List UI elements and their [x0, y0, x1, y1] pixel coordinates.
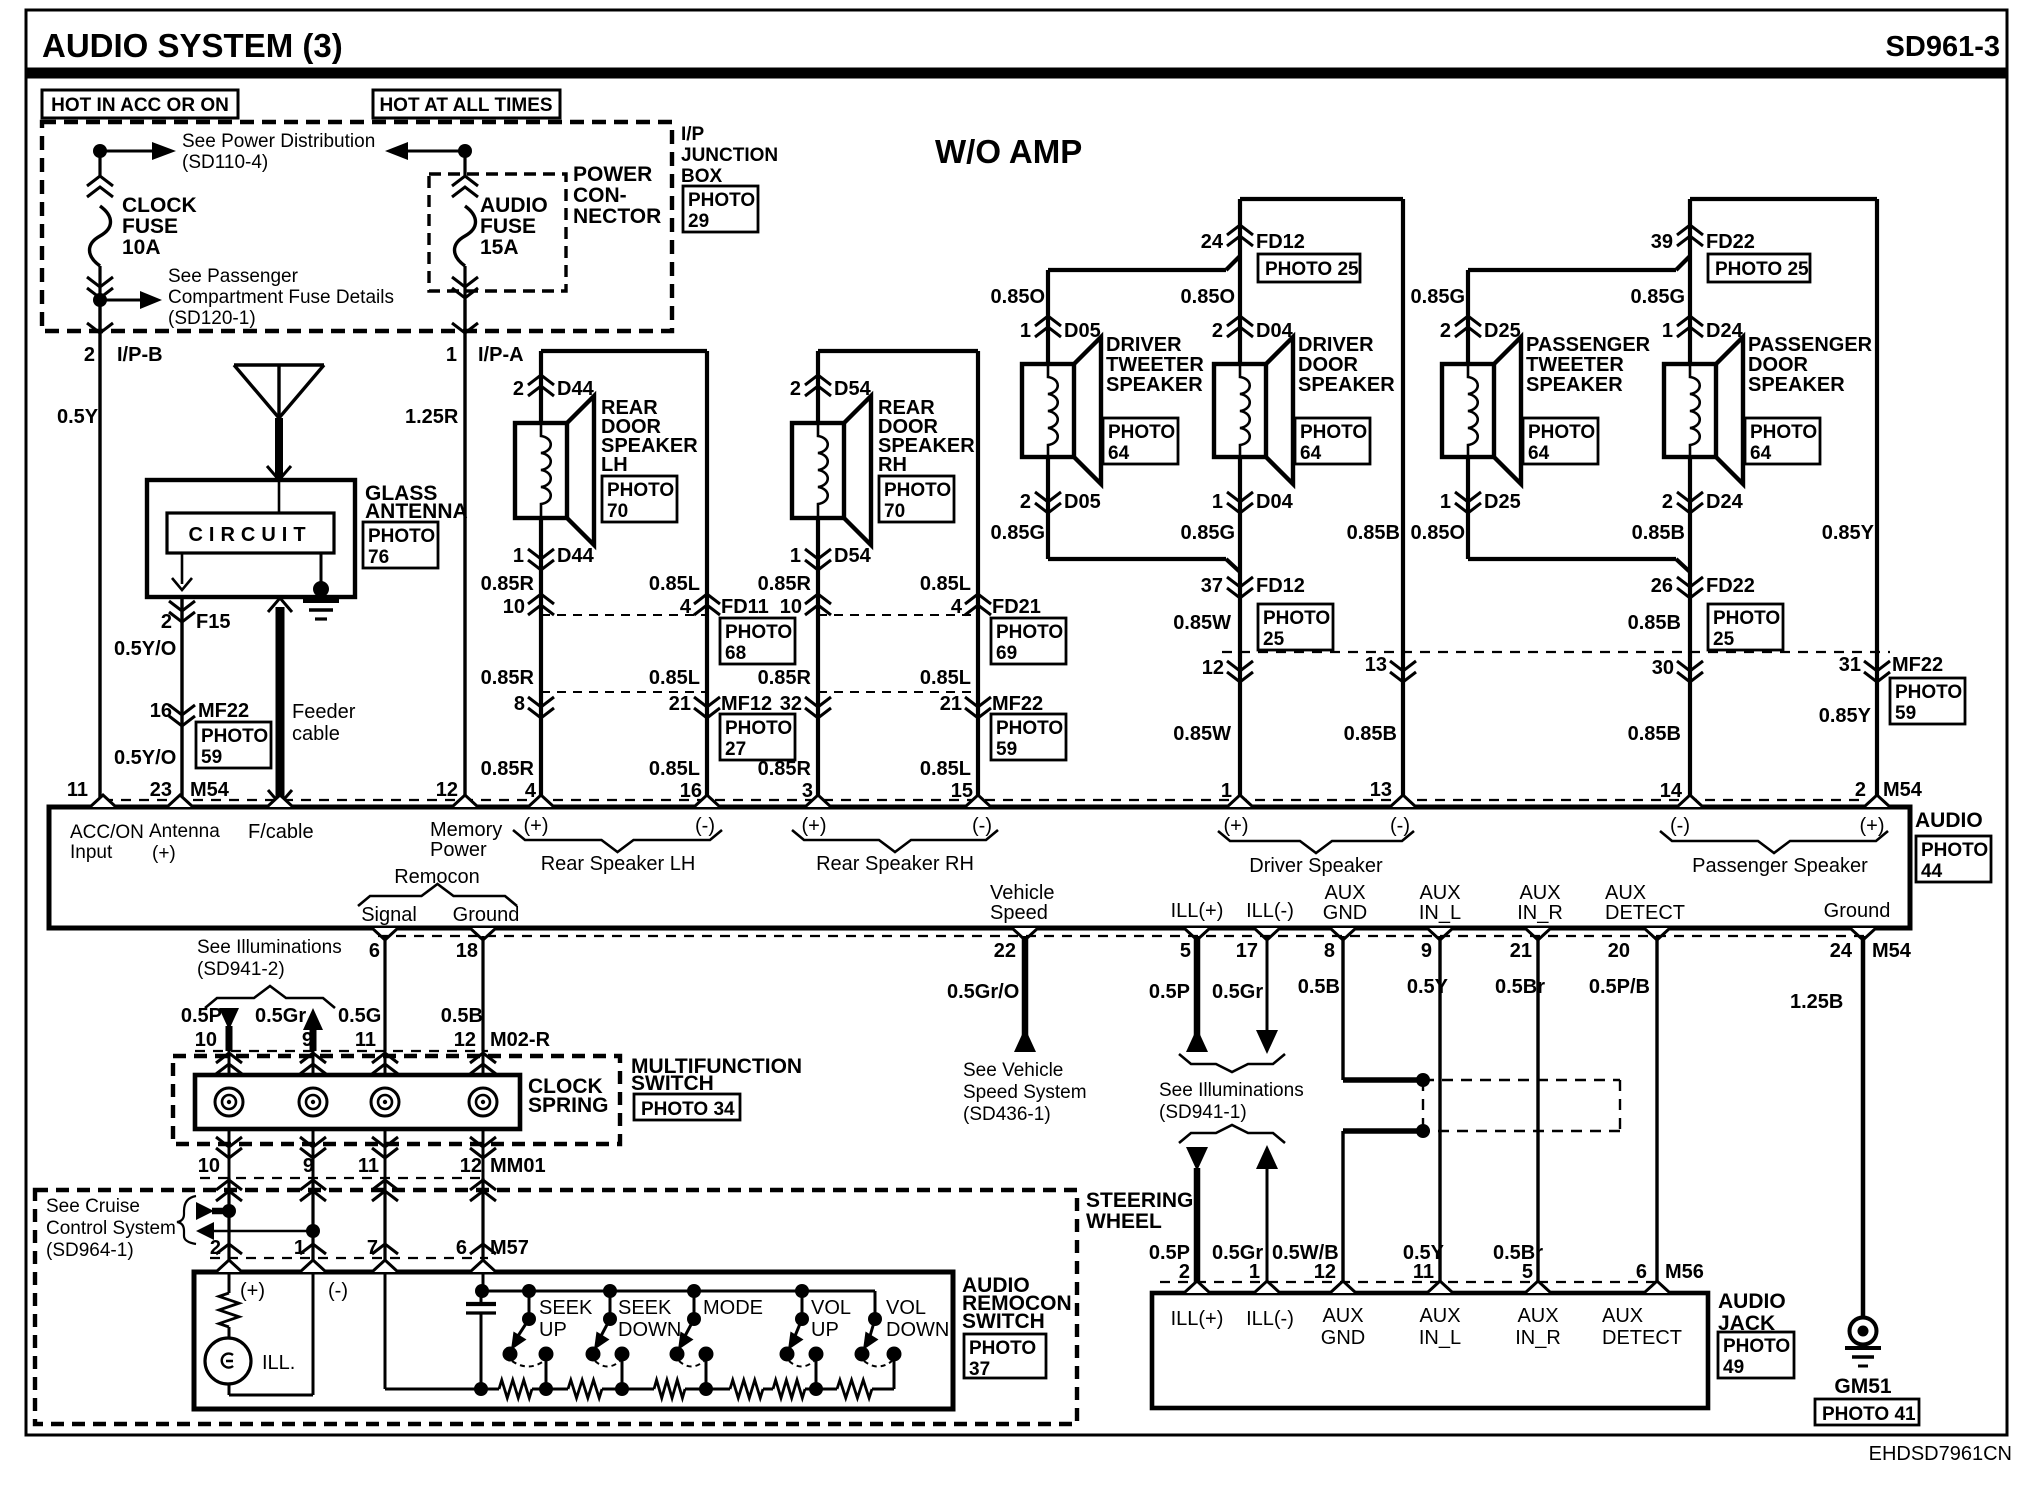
- svg-text:1: 1: [790, 545, 801, 567]
- see illuminations SD941-1 reference: [1179, 1054, 1285, 1072]
- svg-text:TWEETER: TWEETER: [1106, 354, 1204, 376]
- wire I/P-B 0.5Y: [98, 300, 101, 807]
- svg-text:MODE: MODE: [703, 1297, 763, 1319]
- switch VOL UP: [795, 1284, 809, 1298]
- connector D24 top: [1677, 316, 1703, 337]
- svg-text:DOOR: DOOR: [1298, 354, 1359, 376]
- svg-text:PHOTO: PHOTO: [1108, 422, 1175, 443]
- svg-text:PHOTO 25: PHOTO 25: [1265, 259, 1359, 280]
- svg-text:PHOTO: PHOTO: [1921, 840, 1988, 861]
- svg-text:10A: 10A: [122, 236, 161, 259]
- svg-text:(SD941-2): (SD941-2): [197, 959, 285, 980]
- fuse AUDIO FUSE 15A: [463, 151, 466, 178]
- svg-text:JUNCTION: JUNCTION: [681, 145, 778, 166]
- wire AUX GND 0.5B with shield taps: [1341, 936, 1344, 1080]
- svg-text:PASSENGER: PASSENGER: [1748, 334, 1873, 356]
- svg-text:(SD436-1): (SD436-1): [963, 1104, 1051, 1125]
- svg-text:70: 70: [607, 501, 628, 522]
- svg-text:32: 32: [780, 693, 802, 715]
- svg-text:0.85R: 0.85R: [758, 758, 812, 780]
- connector D25 top: [1455, 316, 1481, 337]
- svg-text:(-): (-): [972, 815, 992, 837]
- wire loop FD12 top: [1240, 197, 1403, 201]
- svg-text:D44: D44: [557, 378, 595, 400]
- svg-text:0.85G: 0.85G: [1631, 286, 1685, 308]
- svg-text:(SD120-1): (SD120-1): [168, 308, 256, 329]
- svg-text:See Illuminations: See Illuminations: [197, 937, 342, 958]
- connector D44 pin 1 (bottom): [528, 549, 554, 570]
- svg-text:0.85L: 0.85L: [920, 667, 971, 689]
- svg-text:5: 5: [1180, 940, 1191, 962]
- svg-text:3: 3: [802, 780, 813, 802]
- svg-text:2: 2: [1179, 1261, 1190, 1283]
- speaker DRIVER tweeter: [1022, 364, 1074, 457]
- connector FD12 top: [1227, 225, 1253, 246]
- svg-text:0.85R: 0.85R: [481, 758, 535, 780]
- svg-text:2: 2: [513, 378, 524, 400]
- svg-text:STEERING: STEERING: [1086, 1189, 1193, 1212]
- svg-text:SWITCH: SWITCH: [962, 1310, 1045, 1333]
- svg-text:See Vehicle: See Vehicle: [963, 1060, 1063, 1081]
- connector D04 top: [1227, 316, 1253, 337]
- svg-text:M54: M54: [190, 779, 230, 801]
- svg-text:IN_R: IN_R: [1515, 1327, 1561, 1349]
- connector D24 bottom: [1677, 492, 1703, 513]
- svg-text:2: 2: [1020, 491, 1031, 513]
- wire AUX IN_L 0.5Y: [1438, 936, 1441, 1293]
- svg-text:16: 16: [680, 780, 702, 802]
- svg-text:W/O AMP: W/O AMP: [935, 133, 1082, 170]
- switch SEEK UP: [522, 1284, 536, 1298]
- glass antenna box with CIRCUIT: [147, 480, 355, 597]
- svg-text:Compartment Fuse Details: Compartment Fuse Details: [168, 287, 394, 308]
- svg-text:GM51: GM51: [1834, 1375, 1892, 1398]
- svg-text:(-): (-): [1390, 815, 1410, 837]
- svg-text:D25: D25: [1484, 320, 1521, 342]
- svg-text:(SD964-1): (SD964-1): [46, 1240, 134, 1261]
- svg-text:0.85R: 0.85R: [481, 573, 535, 595]
- connector MF22: [818, 691, 978, 693]
- switch MODE: [687, 1284, 701, 1298]
- svg-text:I/P-B: I/P-B: [117, 344, 163, 366]
- svg-text:0.5Y/O: 0.5Y/O: [114, 638, 176, 660]
- svg-text:MF12: MF12: [721, 693, 772, 715]
- svg-text:FD11: FD11: [721, 596, 769, 618]
- connector M54 row chevron 31: [1864, 661, 1890, 682]
- svg-text:D24: D24: [1706, 491, 1744, 513]
- svg-text:12: 12: [460, 1155, 482, 1177]
- clock spring coils: [228, 1051, 231, 1075]
- svg-text:PHOTO: PHOTO: [1528, 422, 1595, 443]
- svg-text:2: 2: [210, 1237, 221, 1259]
- svg-text:SWITCH: SWITCH: [631, 1072, 714, 1095]
- svg-text:Antenna: Antenna: [149, 821, 220, 842]
- svg-text:AUDIO: AUDIO: [1915, 809, 1983, 832]
- svg-text:8: 8: [1324, 940, 1335, 962]
- svg-text:PHOTO 34: PHOTO 34: [641, 1099, 735, 1120]
- svg-text:TWEETER: TWEETER: [1526, 354, 1624, 376]
- svg-text:(-): (-): [695, 815, 715, 837]
- svg-text:9: 9: [1421, 940, 1432, 962]
- svg-text:FD21: FD21: [992, 596, 1041, 618]
- svg-text:Memory: Memory: [430, 819, 502, 841]
- svg-text:ILL.: ILL.: [262, 1352, 295, 1374]
- svg-text:NECTOR: NECTOR: [573, 205, 661, 228]
- svg-text:39: 39: [1651, 231, 1673, 253]
- svg-text:69: 69: [996, 643, 1017, 664]
- wire loop FD22 top: [1690, 197, 1877, 201]
- svg-text:1: 1: [446, 344, 457, 366]
- svg-text:11: 11: [67, 779, 88, 801]
- wire F15 0.5Y/O (antenna +): [181, 553, 184, 584]
- svg-text:SPEAKER: SPEAKER: [1526, 374, 1623, 396]
- svg-text:PHOTO: PHOTO: [1750, 422, 1817, 443]
- label HOT IN ACC OR ON: [42, 90, 238, 118]
- svg-text:10: 10: [195, 1029, 217, 1051]
- svg-text:9: 9: [302, 1029, 313, 1051]
- svg-text:0.5Gr/O: 0.5Gr/O: [947, 981, 1019, 1003]
- svg-text:0.85R: 0.85R: [481, 667, 535, 689]
- svg-text:PHOTO 41: PHOTO 41: [1822, 1404, 1916, 1425]
- svg-text:ILL(-): ILL(-): [1246, 1308, 1294, 1330]
- wire pair D44 top loop: [541, 349, 707, 353]
- svg-text:0.85W: 0.85W: [1173, 723, 1231, 745]
- svg-text:9: 9: [303, 1155, 314, 1177]
- svg-text:EHDSD7961CN: EHDSD7961CN: [1869, 1443, 2012, 1465]
- svg-text:ILL(+): ILL(+): [1171, 900, 1224, 922]
- svg-text:0.5Y: 0.5Y: [57, 406, 99, 428]
- svg-text:0.85L: 0.85L: [649, 573, 700, 595]
- svg-text:1: 1: [1020, 320, 1031, 342]
- svg-text:0.85G: 0.85G: [991, 522, 1045, 544]
- svg-text:I/P: I/P: [681, 124, 705, 145]
- svg-text:CON-: CON-: [573, 184, 627, 207]
- svg-text:DETECT: DETECT: [1605, 902, 1685, 924]
- svg-text:GND: GND: [1321, 1327, 1365, 1349]
- svg-text:SD961-3: SD961-3: [1886, 31, 2000, 63]
- svg-text:13: 13: [1365, 654, 1387, 676]
- node: power distribution junction A: [93, 144, 107, 158]
- svg-text:59: 59: [996, 739, 1017, 760]
- svg-text:PHOTO: PHOTO: [1300, 422, 1367, 443]
- svg-text:CIRCUIT: CIRCUIT: [188, 524, 311, 546]
- svg-text:F15: F15: [196, 611, 230, 633]
- audio jack box: [1152, 1293, 1708, 1408]
- svg-text:30: 30: [1652, 657, 1674, 679]
- svg-text:UP: UP: [811, 1319, 839, 1341]
- connector M54 dashed line top: [103, 799, 1866, 801]
- svg-text:76: 76: [368, 547, 389, 568]
- svg-text:2: 2: [1662, 491, 1673, 513]
- wire: see power distribution link: [100, 150, 152, 153]
- shield dashed box (AUX IN): [1422, 1080, 1424, 1131]
- svg-text:PHOTO: PHOTO: [607, 480, 674, 501]
- node: passenger compartment fuse junction: [93, 293, 107, 307]
- svg-text:PHOTO: PHOTO: [996, 718, 1063, 739]
- svg-text:CLOCK: CLOCK: [122, 194, 197, 217]
- svg-text:64: 64: [1108, 443, 1130, 464]
- svg-text:See Passenger: See Passenger: [168, 266, 299, 287]
- connector D54 pin 1 (bottom): [805, 549, 831, 570]
- arrow illumination 0.5P (down): [219, 1008, 239, 1030]
- svg-text:4: 4: [680, 596, 692, 618]
- fuse CLOCK FUSE 10A: [98, 151, 101, 178]
- svg-text:1: 1: [513, 545, 524, 567]
- svg-text:D25: D25: [1484, 491, 1521, 513]
- svg-text:12: 12: [1314, 1261, 1336, 1283]
- feeder cable (bold): [268, 598, 292, 612]
- svg-text:2: 2: [161, 611, 172, 633]
- wire I/P-A 1.25R: [463, 300, 466, 807]
- svg-text:8: 8: [514, 693, 525, 715]
- svg-text:0.85G: 0.85G: [1181, 522, 1235, 544]
- wire Remocon Signal (pin 6): [383, 936, 386, 1051]
- speaker PASSENGER tweeter: [1442, 364, 1494, 457]
- ground GM51: [1850, 1318, 1877, 1345]
- capacitor: [475, 1284, 489, 1298]
- svg-text:SEEK: SEEK: [618, 1297, 672, 1319]
- svg-text:10: 10: [198, 1155, 220, 1177]
- wire M57-7 to resistor ladder: [384, 1272, 387, 1389]
- svg-text:SPEAKER: SPEAKER: [1106, 374, 1203, 396]
- svg-text:21: 21: [669, 693, 691, 715]
- connector FD22 top: [1677, 225, 1703, 246]
- power connector (dashed): [429, 174, 566, 291]
- steering wheel dashed box: [35, 1190, 1077, 1424]
- svg-text:1.25B: 1.25B: [1790, 991, 1843, 1013]
- svg-text:AUDIO: AUDIO: [1718, 1290, 1786, 1313]
- tweeter return wire to FD22 bottom: [1468, 557, 1676, 561]
- svg-text:14: 14: [1660, 780, 1683, 802]
- svg-text:POWER: POWER: [573, 163, 652, 186]
- svg-text:12: 12: [436, 779, 458, 801]
- svg-text:0.85Y: 0.85Y: [1822, 522, 1875, 544]
- svg-text:MF22: MF22: [992, 693, 1043, 715]
- switch top rail: [481, 1290, 875, 1293]
- connector D44 pin 2 (top): [528, 375, 554, 396]
- svg-text:FD22: FD22: [1706, 231, 1755, 253]
- svg-text:11: 11: [1413, 1261, 1434, 1283]
- svg-text:PHOTO: PHOTO: [1713, 608, 1780, 629]
- svg-text:13: 13: [1370, 779, 1392, 801]
- svg-text:(+): (+): [802, 815, 827, 837]
- svg-text:M56: M56: [1665, 1261, 1704, 1283]
- connector FD12 bottom: [1227, 577, 1253, 598]
- svg-text:AUDIO SYSTEM (3): AUDIO SYSTEM (3): [42, 27, 343, 64]
- svg-text:D05: D05: [1064, 491, 1101, 513]
- svg-text:MM01: MM01: [490, 1155, 546, 1177]
- svg-text:PHOTO: PHOTO: [1895, 682, 1962, 703]
- svg-text:SEEK: SEEK: [539, 1297, 593, 1319]
- wire Vehicle Speed 0.5Gr/O: [1022, 936, 1029, 1050]
- head unit box AUDIO: [49, 807, 1910, 928]
- svg-text:FD12: FD12: [1256, 575, 1305, 597]
- svg-text:AUX: AUX: [1517, 1305, 1558, 1327]
- svg-text:WHEEL: WHEEL: [1086, 1210, 1162, 1233]
- svg-text:25: 25: [1713, 629, 1735, 650]
- svg-text:Signal: Signal: [361, 904, 417, 926]
- svg-text:0.85B: 0.85B: [1347, 522, 1400, 544]
- svg-text:ANTENNA: ANTENNA: [365, 500, 468, 523]
- svg-text:2: 2: [1440, 320, 1451, 342]
- svg-text:1.25R: 1.25R: [405, 406, 459, 428]
- svg-text:ILL(+): ILL(+): [1171, 1308, 1224, 1330]
- svg-text:0.5P: 0.5P: [181, 1005, 222, 1027]
- svg-text:D54: D54: [834, 378, 872, 400]
- svg-text:0.85O: 0.85O: [1411, 522, 1465, 544]
- node: cruise junction on 0.5P wire: [196, 1202, 214, 1220]
- svg-text:SPRING: SPRING: [528, 1094, 609, 1117]
- svg-text:37: 37: [969, 1359, 990, 1380]
- svg-text:AUX: AUX: [1605, 882, 1646, 904]
- svg-text:ILL(-): ILL(-): [1246, 900, 1294, 922]
- svg-text:PHOTO: PHOTO: [969, 1338, 1036, 1359]
- svg-text:IN_R: IN_R: [1517, 902, 1563, 924]
- tweeter feed wire D05: [1048, 268, 1226, 272]
- svg-text:VOL: VOL: [886, 1297, 926, 1319]
- svg-text:0.5B: 0.5B: [441, 1005, 483, 1027]
- arrow illumination 0.5Gr (up): [303, 1008, 323, 1030]
- svg-text:PASSENGER: PASSENGER: [1526, 334, 1651, 356]
- svg-text:HOT AT ALL TIMES: HOT AT ALL TIMES: [379, 95, 552, 116]
- bottom rail with resistors: [385, 1388, 499, 1391]
- svg-text:15A: 15A: [480, 236, 519, 259]
- svg-text:BOX: BOX: [681, 166, 723, 187]
- svg-text:0.5B: 0.5B: [1298, 976, 1340, 998]
- svg-text:UP: UP: [539, 1319, 567, 1341]
- svg-text:(+): (+): [524, 815, 549, 837]
- svg-text:11: 11: [355, 1029, 376, 1051]
- wire ILL(+) 0.5P upper: [1194, 936, 1201, 1050]
- svg-text:AUX: AUX: [1322, 1305, 1363, 1327]
- svg-text:Power: Power: [430, 839, 487, 861]
- speaker REAR DOOR SPEAKER LH: [515, 423, 567, 518]
- svg-text:(+): (+): [240, 1280, 265, 1302]
- svg-text:0.5G: 0.5G: [338, 1005, 381, 1027]
- svg-text:31: 31: [1839, 654, 1861, 676]
- svg-text:FUSE: FUSE: [480, 215, 536, 238]
- antenna symbol: [234, 363, 324, 366]
- svg-text:F/cable: F/cable: [248, 821, 314, 843]
- svg-text:D05: D05: [1064, 320, 1101, 342]
- svg-text:0.85B: 0.85B: [1628, 723, 1681, 745]
- svg-text:21: 21: [1510, 940, 1532, 962]
- svg-text:0.5Gr: 0.5Gr: [1212, 981, 1263, 1003]
- svg-text:26: 26: [1651, 575, 1673, 597]
- svg-text:49: 49: [1723, 1357, 1744, 1378]
- speaker PASSENGER door: [1664, 364, 1716, 457]
- svg-text:Feeder: Feeder: [292, 701, 356, 723]
- photo box PHOTO 34: [634, 1094, 740, 1120]
- svg-text:2: 2: [1855, 779, 1866, 801]
- svg-text:18: 18: [456, 940, 478, 962]
- svg-text:17: 17: [1236, 940, 1258, 962]
- lamp ILL.: [228, 1327, 231, 1338]
- junction dots on rails: [474, 1382, 488, 1396]
- svg-text:MF22: MF22: [1892, 654, 1943, 676]
- svg-text:6: 6: [1636, 1261, 1647, 1283]
- svg-text:LH: LH: [601, 454, 628, 476]
- svg-text:11: 11: [358, 1155, 379, 1177]
- connector M54 row chevron 13: [1390, 661, 1416, 682]
- svg-text:M57: M57: [490, 1237, 529, 1259]
- title rule: [26, 68, 2007, 79]
- svg-text:4: 4: [951, 596, 963, 618]
- svg-text:2: 2: [790, 378, 801, 400]
- svg-text:0.85B: 0.85B: [1628, 612, 1681, 634]
- svg-text:MF22: MF22: [198, 700, 249, 722]
- photo box PHOTO 29: [683, 186, 758, 232]
- svg-text:5: 5: [1522, 1261, 1533, 1283]
- svg-text:0.85L: 0.85L: [649, 667, 700, 689]
- svg-text:64: 64: [1750, 443, 1772, 464]
- label HOT AT ALL TIMES: [373, 90, 560, 118]
- svg-text:AUX: AUX: [1519, 882, 1560, 904]
- svg-text:FD12: FD12: [1256, 231, 1305, 253]
- svg-text:0.85L: 0.85L: [920, 758, 971, 780]
- svg-text:DOOR: DOOR: [1748, 354, 1809, 376]
- connector MF22 pin 16: [169, 705, 195, 726]
- node: cruise junction on 0.5Gr wire: [196, 1222, 214, 1240]
- connector M54 row chevron 30: [1677, 661, 1703, 682]
- svg-text:ACC/ON: ACC/ON: [70, 822, 144, 843]
- speaker REAR DOOR SPEAKER RH: [792, 423, 844, 518]
- svg-text:SPEAKER: SPEAKER: [1298, 374, 1395, 396]
- svg-text:10: 10: [503, 596, 525, 618]
- svg-text:0.85B: 0.85B: [1344, 723, 1397, 745]
- svg-text:DRIVER: DRIVER: [1106, 334, 1182, 356]
- svg-text:6: 6: [456, 1237, 467, 1259]
- svg-text:AUX: AUX: [1602, 1305, 1643, 1327]
- svg-text:0.85R: 0.85R: [758, 667, 812, 689]
- svg-text:PHOTO: PHOTO: [725, 718, 792, 739]
- svg-text:20: 20: [1608, 940, 1630, 962]
- svg-text:70: 70: [884, 501, 905, 522]
- wire ILL(+) 0.5P lower: [1186, 1147, 1208, 1171]
- svg-text:(+): (+): [1860, 815, 1885, 837]
- svg-text:PHOTO: PHOTO: [996, 622, 1063, 643]
- svg-text:DOWN: DOWN: [886, 1319, 949, 1341]
- connector D05 bottom: [1046, 457, 1050, 559]
- audio remocon switch box: [194, 1272, 953, 1409]
- node: junction B: [458, 144, 472, 158]
- wire Remocon Ground (pin 18): [481, 936, 484, 1051]
- svg-text:7: 7: [367, 1237, 378, 1259]
- wires MM01 to M57: [227, 1178, 230, 1272]
- switch VOL DOWN: [874, 1291, 877, 1319]
- switch SEEK DOWN: [603, 1284, 617, 1298]
- svg-text:0.5P/B: 0.5P/B: [1589, 976, 1650, 998]
- connector FD21: [818, 614, 978, 616]
- svg-text:M54: M54: [1883, 779, 1923, 801]
- svg-text:PHOTO: PHOTO: [725, 622, 792, 643]
- wire pair D54 top loop: [818, 349, 978, 353]
- multifunction switch dashed box: [173, 1056, 620, 1144]
- svg-text:44: 44: [1921, 861, 1943, 882]
- connector D25 bottom: [1466, 457, 1470, 559]
- connector M54 row chevron 12: [1227, 661, 1253, 682]
- svg-text:PHOTO: PHOTO: [368, 526, 435, 547]
- svg-text:0.85W: 0.85W: [1173, 612, 1231, 634]
- wire ground 1.25B: [1861, 936, 1866, 1318]
- svg-text:DRIVER: DRIVER: [1298, 334, 1374, 356]
- svg-text:59: 59: [1895, 703, 1916, 724]
- svg-text:(+): (+): [1224, 815, 1249, 837]
- svg-text:15: 15: [951, 780, 973, 802]
- svg-text:12: 12: [1202, 657, 1224, 679]
- svg-text:59: 59: [201, 747, 222, 768]
- svg-text:HOT IN ACC OR ON: HOT IN ACC OR ON: [51, 95, 229, 116]
